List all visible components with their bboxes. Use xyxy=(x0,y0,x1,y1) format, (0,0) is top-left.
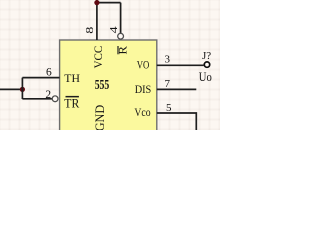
pin 7 wire xyxy=(157,88,197,90)
IC U? 555 body xyxy=(60,40,157,135)
wire top to pin 4 xyxy=(97,2,121,4)
TR overline xyxy=(66,96,79,98)
pin 2 wire xyxy=(22,98,52,100)
connector J? xyxy=(204,62,209,67)
svg-text:3: 3 xyxy=(165,53,171,65)
junction dot top xyxy=(94,0,99,5)
pin 3 wire xyxy=(157,64,204,66)
riser wire xyxy=(21,78,23,99)
left net wire xyxy=(0,88,22,90)
svg-text:VCC: VCC xyxy=(91,46,105,69)
R overline xyxy=(117,46,118,54)
svg-text:TH: TH xyxy=(64,71,80,85)
svg-text:VO: VO xyxy=(137,57,150,71)
pin 4 wire xyxy=(120,3,122,34)
svg-text:GND: GND xyxy=(93,105,107,130)
svg-text:TR: TR xyxy=(64,97,80,111)
svg-text:5: 5 xyxy=(166,102,172,114)
svg-text:Vco: Vco xyxy=(134,105,150,119)
svg-text:6: 6 xyxy=(46,67,52,79)
pin 4 inversion bubble xyxy=(118,33,124,39)
svg-text:8: 8 xyxy=(85,27,96,34)
svg-text:DIS: DIS xyxy=(135,82,152,96)
svg-text:4: 4 xyxy=(109,25,120,33)
pin 5 wire xyxy=(157,113,197,130)
svg-text:J?: J? xyxy=(202,50,211,62)
svg-text:Uo: Uo xyxy=(199,69,212,84)
pin 6 wire xyxy=(22,77,59,79)
svg-text:2: 2 xyxy=(45,89,51,101)
pin 2 inversion bubble xyxy=(52,96,58,102)
pin 8 VCC wire xyxy=(96,0,98,40)
svg-text:555: 555 xyxy=(95,77,110,92)
junction dot left xyxy=(20,87,25,92)
svg-text:7: 7 xyxy=(165,78,171,90)
